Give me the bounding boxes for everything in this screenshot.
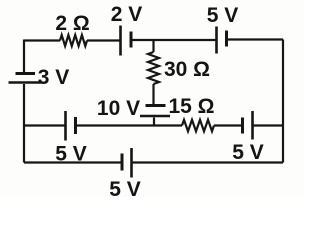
svg-text:3 V: 3 V <box>38 66 70 89</box>
wire bottom-right segment <box>132 161 284 163</box>
battery V2 2 V short plate <box>130 32 133 48</box>
battery V1 3 V long plate <box>9 81 42 84</box>
wire middle-left segment <box>24 124 66 126</box>
svg-text:5 V: 5 V <box>55 143 87 166</box>
svg-text:2 V: 2 V <box>111 3 143 26</box>
wire left upper segment <box>23 40 25 73</box>
battery V3 5 V top short plate <box>225 31 228 47</box>
svg-text:5 V: 5 V <box>207 4 239 27</box>
wire right segment <box>282 40 284 163</box>
svg-text:15 Ω: 15 Ω <box>168 95 214 118</box>
wire left lower segment <box>23 84 25 163</box>
resistor R1 2 ohm (top wire) <box>60 35 87 46</box>
battery V3 5 V top long plate <box>215 27 218 54</box>
battery V4 10 V short plate <box>146 104 166 107</box>
wire middle branch upper <box>152 40 154 52</box>
resistor R2 30 ohm (middle branch) <box>148 52 159 84</box>
node junction of middle branch on top wire <box>152 39 154 41</box>
wire bottom-left segment <box>24 161 122 163</box>
wire between V2 and V3 <box>131 39 216 41</box>
wire middle-right segment <box>253 124 284 126</box>
battery V7 5 V bottom long plate <box>130 148 133 178</box>
wire between R3 and V6 <box>214 124 243 126</box>
svg-text:5 V: 5 V <box>232 141 264 164</box>
battery V4 10 V long plate <box>140 115 170 118</box>
wire top-left segment <box>24 39 60 41</box>
wire top-right segment <box>227 38 284 40</box>
battery V7 5 V bottom short plate <box>121 154 124 171</box>
battery V6 5 V mid-right long plate <box>251 111 254 140</box>
wire middle center segment <box>76 124 183 126</box>
svg-text:5 V: 5 V <box>109 178 141 197</box>
svg-text:30 Ω: 30 Ω <box>164 58 210 81</box>
battery V2 2 V (top wire) long plate <box>119 26 122 56</box>
wire middle branch lower <box>153 118 155 126</box>
svg-text:10 V: 10 V <box>97 97 140 120</box>
svg-text:2 Ω: 2 Ω <box>55 12 89 35</box>
battery V5 5 V mid-left long plate <box>64 111 67 141</box>
battery V6 5 V mid-right short plate <box>241 118 244 134</box>
battery V5 5 V mid-left short plate <box>74 117 77 134</box>
resistor R3 15 ohm (middle wire) <box>182 120 214 132</box>
wire between R2 and V4 <box>152 84 154 104</box>
wire between R1 and V2 <box>87 39 120 41</box>
battery V1 3 V short plate <box>16 72 36 75</box>
